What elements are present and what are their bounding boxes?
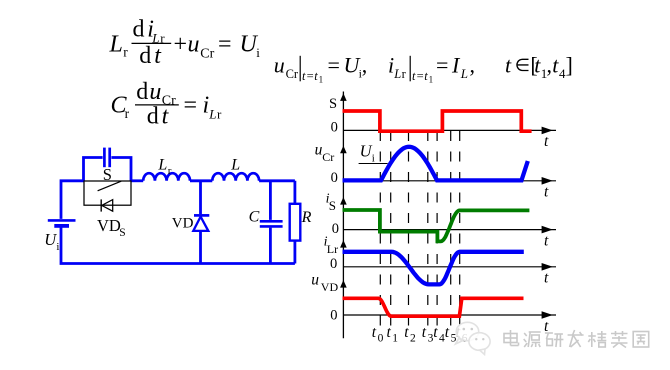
svg-text:t: t [422,324,427,341]
svg-text:d: d [133,17,145,43]
svg-text:L: L [460,66,468,81]
svg-text:C: C [249,209,260,226]
svg-text:=: = [436,52,448,77]
svg-text:Cr: Cr [200,46,214,61]
svg-text:i: i [56,241,59,253]
svg-text:VD: VD [172,215,194,231]
svg-text:0: 0 [330,256,337,272]
svg-text:t: t [412,69,416,83]
svg-text:t: t [433,324,438,341]
svg-text:t: t [372,324,377,341]
svg-text:2: 2 [410,333,416,345]
svg-text:r: r [160,30,165,45]
svg-text:VD: VD [321,280,339,294]
svg-text:U: U [44,230,57,249]
svg-text:=: = [184,93,198,119]
svg-text:u: u [274,52,285,77]
svg-text:t: t [404,324,409,341]
svg-text:u: u [188,32,200,58]
svg-text:]: ] [566,52,573,77]
svg-text:L: L [230,157,240,174]
svg-text:L: L [157,157,167,174]
svg-text:t: t [387,324,392,341]
svg-text:t: t [302,69,306,83]
svg-text:,: , [547,52,553,77]
svg-text:t: t [445,324,450,341]
svg-text:0: 0 [378,333,384,345]
svg-text:L: L [109,32,123,58]
svg-text:L: L [208,106,216,121]
svg-text:=: = [328,52,340,77]
svg-text:r: r [168,165,172,177]
svg-text:d: d [136,79,148,105]
svg-text:,: , [362,52,368,77]
svg-text:t: t [544,184,549,201]
svg-text:S: S [329,96,337,112]
svg-text:∈: ∈ [515,55,530,75]
svg-text:i: i [256,45,260,60]
svg-text:0: 0 [331,119,338,135]
svg-text:Lr: Lr [327,242,338,256]
svg-text:,: , [470,52,476,77]
svg-text:t: t [544,133,549,150]
svg-text:S: S [119,227,125,239]
svg-text:=: = [218,32,232,58]
svg-text:r: r [217,106,222,121]
svg-text:1: 1 [429,75,434,85]
svg-text:=: = [307,69,314,83]
svg-text:1: 1 [392,333,398,345]
svg-text:d: d [147,103,159,129]
svg-text:d: d [139,43,151,69]
svg-text:t: t [505,52,512,77]
svg-text:t: t [314,69,318,83]
svg-text:0: 0 [331,170,338,186]
svg-text:U: U [360,142,373,161]
svg-text:=: = [417,69,424,83]
svg-text:L: L [393,67,401,81]
svg-text:Cr: Cr [286,67,299,81]
svg-text:S: S [103,165,112,184]
svg-text:+: + [174,32,188,58]
svg-text:0: 0 [332,221,339,237]
svg-text:t: t [424,69,428,83]
svg-text:t: t [544,270,549,287]
svg-text:r: r [125,106,130,121]
svg-text:VD: VD [97,216,121,235]
svg-text:i: i [372,153,375,165]
svg-text:Cr: Cr [322,150,334,164]
svg-text:R: R [301,209,312,226]
svg-text:0: 0 [330,308,337,324]
svg-text:u: u [311,272,319,289]
svg-text:i: i [203,93,210,119]
svg-text:r: r [123,45,128,60]
svg-text:t: t [544,232,549,249]
svg-text:u: u [149,79,161,105]
svg-text:S: S [329,198,336,213]
svg-text:1: 1 [319,75,324,85]
